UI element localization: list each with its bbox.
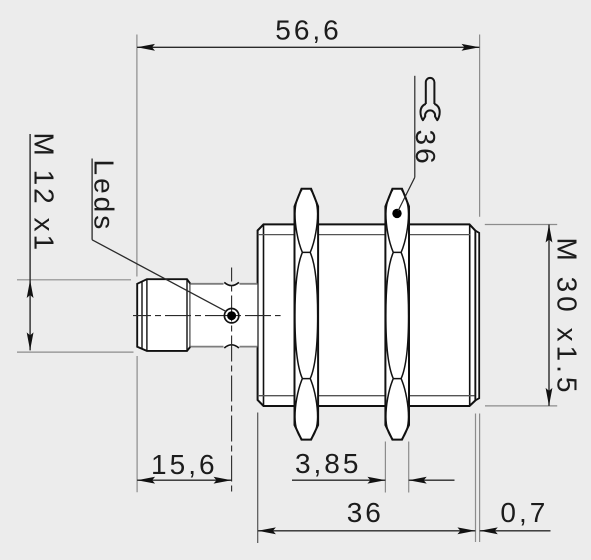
arrow 56,6 right bbox=[462, 44, 480, 51]
arrow M12 up bbox=[27, 280, 34, 298]
wrench leader vertical bbox=[414, 76, 416, 178]
arrow M12 down bbox=[27, 332, 34, 350]
arrow 36 right bbox=[457, 527, 475, 534]
sensor body M30 barrel bbox=[258, 224, 480, 406]
dimension 3,85 extension left bbox=[384, 442, 386, 493]
wrench icon bbox=[421, 78, 440, 120]
Leds label underline bbox=[91, 159, 93, 240]
svg-text:36: 36 bbox=[347, 497, 384, 528]
arrow 3,85 pointing left bbox=[409, 477, 427, 484]
M12 connector barrel bbox=[137, 279, 190, 351]
body left chamfer line bbox=[263, 224, 265, 406]
arrow M30 up bbox=[546, 225, 553, 243]
dimension 36 extension left bbox=[257, 413, 259, 544]
arrow 3,85 pointing right bbox=[367, 477, 385, 484]
LED dot bbox=[227, 311, 236, 320]
hex nut 1 bbox=[295, 189, 319, 440]
led window arc bottom bbox=[224, 345, 239, 348]
thread minor line bottom bbox=[258, 395, 475, 397]
dimension 56,6 extension line right bbox=[479, 35, 481, 217]
dimension 56,6 extension line left bbox=[136, 35, 138, 277]
arrow 15,6 right bbox=[214, 477, 232, 484]
horizontal centerline bbox=[133, 315, 281, 317]
svg-text:0,7: 0,7 bbox=[500, 497, 548, 528]
connector stem bbox=[190, 282, 257, 348]
arrow 0,7 pointing left bbox=[480, 527, 498, 534]
dimension M12 line bbox=[29, 134, 31, 350]
wrench flat marker dot on nut 2 bbox=[392, 209, 401, 218]
svg-text:M 30 x1.5: M 30 x1.5 bbox=[552, 238, 583, 397]
dimension 0,7 line bbox=[480, 530, 551, 532]
Leds leader line bbox=[92, 240, 226, 311]
svg-text:15,6: 15,6 bbox=[151, 449, 218, 480]
wrench leader diagonal bbox=[398, 177, 415, 211]
dimension M30 extension bottom bbox=[485, 405, 557, 407]
svg-text:Leds: Leds bbox=[89, 160, 120, 233]
dimension M12 extension top bbox=[17, 279, 131, 281]
svg-text:56,6: 56,6 bbox=[275, 15, 342, 46]
dimension 56,6 line bbox=[137, 46, 480, 48]
dimension 3,85 line left part bbox=[292, 479, 385, 481]
body right chamfer line bbox=[469, 224, 471, 406]
hex nut 2 bbox=[385, 189, 409, 440]
LED ring bbox=[224, 309, 238, 323]
arrow 36 left bbox=[258, 527, 276, 534]
svg-text:3,85: 3,85 bbox=[295, 448, 362, 479]
svg-text:M 12 x1: M 12 x1 bbox=[29, 133, 60, 254]
arrow 15,6 left bbox=[137, 477, 155, 484]
dimension 15,6 extension left bbox=[136, 356, 138, 492]
vertical centerline through LED bbox=[231, 268, 233, 493]
dimension 36 line bbox=[258, 530, 476, 532]
dimension 15,6 line bbox=[137, 479, 231, 481]
led window arc top bbox=[224, 282, 239, 285]
arrow 56,6 left bbox=[137, 44, 155, 51]
dimension M30 line bbox=[548, 225, 550, 406]
arrow M30 down bbox=[546, 388, 553, 406]
dimension 0,7 extension right (lip) bbox=[479, 414, 481, 543]
dimension 3,85 line right part bbox=[409, 479, 455, 481]
dimension 3,85 extension right bbox=[408, 442, 410, 493]
dimension M30 extension top bbox=[485, 224, 557, 226]
thread minor line top bbox=[258, 234, 470, 236]
dimension M12 extension bottom bbox=[17, 351, 134, 353]
body front lip 0.7 bbox=[475, 231, 479, 401]
dimension 36 extension right (body front) bbox=[475, 414, 477, 543]
